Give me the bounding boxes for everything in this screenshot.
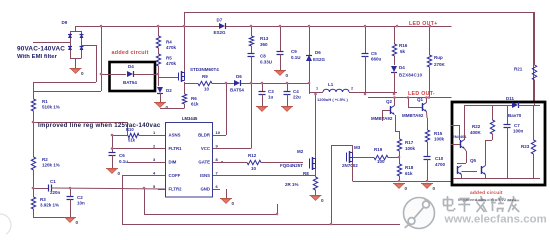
svg-text:0.33U: 0.33U xyxy=(260,60,272,65)
svg-text:0.1U: 0.1U xyxy=(291,55,301,60)
svg-text:5: 5 xyxy=(153,184,156,189)
svg-text:C2: C2 xyxy=(77,195,83,200)
svg-text:Rup: Rup xyxy=(434,55,443,60)
svg-text:2R 1%: 2R 1% xyxy=(285,182,299,187)
svg-text:D2: D2 xyxy=(166,88,172,93)
svg-text:ES2G: ES2G xyxy=(313,57,326,62)
svg-text:0: 0 xyxy=(76,220,79,225)
svg-text:400K: 400K xyxy=(470,130,482,135)
svg-text:2N7002: 2N7002 xyxy=(342,163,358,168)
svg-text:VCC: VCC xyxy=(201,146,210,151)
svg-text:0: 0 xyxy=(166,105,169,110)
svg-text:LM3445: LM3445 xyxy=(182,116,198,121)
svg-text:0: 0 xyxy=(81,71,84,76)
svg-text:M2: M2 xyxy=(297,149,304,154)
svg-text:With EMI filter: With EMI filter xyxy=(17,54,58,60)
svg-text:660u: 660u xyxy=(371,57,382,62)
svg-text:6: 6 xyxy=(216,184,219,189)
svg-text:R5: R5 xyxy=(166,56,172,61)
svg-text:GATE: GATE xyxy=(198,160,210,165)
svg-text:10: 10 xyxy=(204,87,210,92)
svg-text:BAT54: BAT54 xyxy=(123,80,137,85)
svg-text:Bav70: Bav70 xyxy=(508,113,522,118)
svg-text:added circuit: added circuit xyxy=(112,50,149,56)
svg-text:C9: C9 xyxy=(291,49,297,54)
svg-text:4700: 4700 xyxy=(435,162,446,167)
svg-text:R23: R23 xyxy=(521,144,530,149)
svg-text:www.elecfans.com: www.elecfans.com xyxy=(444,214,547,226)
svg-text:R12: R12 xyxy=(248,153,257,158)
svg-text:0: 0 xyxy=(286,73,289,78)
svg-text:LED OUT-: LED OUT- xyxy=(408,91,435,97)
svg-text:DIM: DIM xyxy=(169,160,177,165)
svg-text:270K: 270K xyxy=(434,62,446,67)
svg-text:FLTR2: FLTR2 xyxy=(169,187,183,192)
svg-text:R15: R15 xyxy=(434,131,443,136)
svg-text:R6: R6 xyxy=(191,96,197,101)
svg-text:M3: M3 xyxy=(354,145,361,150)
svg-text:BLDR: BLDR xyxy=(198,133,211,138)
svg-text:100n: 100n xyxy=(513,129,524,134)
svg-text:FQD4N25T: FQD4N25T xyxy=(280,163,303,168)
svg-text:220n: 220n xyxy=(50,190,61,195)
svg-text:ASNS: ASNS xyxy=(169,133,181,138)
svg-text:C3: C3 xyxy=(268,89,274,94)
svg-text:R19: R19 xyxy=(374,147,383,152)
svg-text:5k: 5k xyxy=(400,49,406,54)
svg-text:0: 0 xyxy=(118,171,121,176)
svg-text:Improved line reg when 125vac-: Improved line reg when 125vac-140vac xyxy=(38,122,161,129)
svg-text:R21: R21 xyxy=(514,67,523,72)
svg-text:Q1: Q1 xyxy=(417,97,424,102)
svg-text:R9: R9 xyxy=(202,74,208,79)
svg-text:R8: R8 xyxy=(303,171,309,176)
svg-text:7: 7 xyxy=(216,171,219,176)
svg-text:1u: 1u xyxy=(268,95,274,100)
svg-text:0: 0 xyxy=(321,198,324,203)
svg-text:470k: 470k xyxy=(166,45,177,50)
svg-text:470k: 470k xyxy=(166,61,177,66)
svg-text:120k 1%: 120k 1% xyxy=(42,163,60,168)
svg-text:D6: D6 xyxy=(236,74,242,79)
svg-text:BZX84C10: BZX84C10 xyxy=(399,73,423,78)
svg-text:C5: C5 xyxy=(371,51,377,56)
svg-text:R18: R18 xyxy=(405,165,414,170)
svg-text:D11: D11 xyxy=(506,96,515,101)
svg-text:ISNS: ISNS xyxy=(200,173,210,178)
svg-text:2: 2 xyxy=(153,144,156,149)
svg-text:1200uH ( +/-5% ): 1200uH ( +/-5% ) xyxy=(317,97,348,102)
svg-text:Q2: Q2 xyxy=(386,99,393,104)
svg-text:R3: R3 xyxy=(40,197,46,202)
svg-text:L1: L1 xyxy=(328,82,334,87)
svg-text:10: 10 xyxy=(216,130,221,135)
svg-text:90VAC-140VAC: 90VAC-140VAC xyxy=(17,46,65,53)
svg-text:51k: 51k xyxy=(128,138,136,143)
svg-text:1: 1 xyxy=(153,130,156,135)
svg-text:R17: R17 xyxy=(405,140,414,145)
svg-text:0.1u: 0.1u xyxy=(119,159,128,164)
svg-text:R22: R22 xyxy=(472,124,481,129)
svg-text:D4: D4 xyxy=(128,64,134,69)
svg-text:added circuit: added circuit xyxy=(470,190,503,196)
svg-text:R16: R16 xyxy=(399,43,408,48)
svg-text:STD3NM60T4: STD3NM60T4 xyxy=(190,67,219,72)
svg-text:61k: 61k xyxy=(191,102,199,107)
svg-text:360: 360 xyxy=(260,42,268,47)
svg-text:9: 9 xyxy=(216,144,219,149)
svg-text:0: 0 xyxy=(232,201,235,206)
svg-text:100: 100 xyxy=(377,159,385,164)
svg-text:C8: C8 xyxy=(260,54,266,59)
svg-text:0: 0 xyxy=(433,186,436,191)
svg-text:ES2G: ES2G xyxy=(214,30,227,35)
svg-text:D4: D4 xyxy=(399,65,405,70)
svg-text:C10: C10 xyxy=(435,156,444,161)
svg-text:C7: C7 xyxy=(514,123,520,128)
svg-text:Improved dim circuit v2 rev1: Improved dim circuit v2 rev1 xyxy=(458,197,517,202)
svg-text:10n: 10n xyxy=(77,201,85,206)
svg-text:R2: R2 xyxy=(42,157,48,162)
svg-text:MMBTA92: MMBTA92 xyxy=(371,116,393,121)
svg-text:D9: D9 xyxy=(62,20,68,25)
svg-text:22u: 22u xyxy=(293,95,301,100)
svg-text:FLTR1: FLTR1 xyxy=(169,146,183,151)
svg-text:C4: C4 xyxy=(293,89,299,94)
svg-text:1: 1 xyxy=(316,87,318,91)
svg-text:C6: C6 xyxy=(119,153,125,158)
svg-text:D6: D6 xyxy=(315,50,321,55)
svg-text:10: 10 xyxy=(251,166,257,171)
svg-text:2: 2 xyxy=(351,87,353,91)
svg-text:COFF: COFF xyxy=(169,173,181,178)
svg-text:8: 8 xyxy=(216,157,219,162)
svg-text:MMBTA92: MMBTA92 xyxy=(402,113,424,118)
svg-text:GND: GND xyxy=(200,187,210,192)
svg-text:C1: C1 xyxy=(50,179,56,184)
svg-text:0: 0 xyxy=(405,186,408,191)
svg-text:LED OUT+: LED OUT+ xyxy=(409,21,438,27)
svg-text:D7: D7 xyxy=(217,18,223,23)
svg-text:3: 3 xyxy=(153,157,156,162)
svg-text:100k: 100k xyxy=(434,137,445,142)
svg-text:BAT54: BAT54 xyxy=(230,88,244,93)
svg-text:4: 4 xyxy=(153,171,156,176)
svg-text:R4: R4 xyxy=(166,40,172,45)
svg-text:510k 1%: 510k 1% xyxy=(42,105,60,110)
svg-text:61k: 61k xyxy=(405,171,413,176)
svg-text:3.92k 1%: 3.92k 1% xyxy=(40,203,59,208)
svg-text:R1: R1 xyxy=(42,99,48,104)
svg-text:100k: 100k xyxy=(405,146,416,151)
svg-text:Q5: Q5 xyxy=(470,158,477,163)
svg-text:R13: R13 xyxy=(260,36,269,41)
